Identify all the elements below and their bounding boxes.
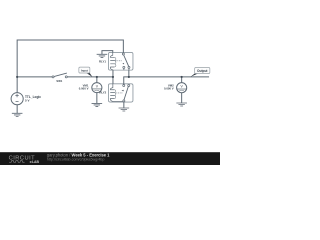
svg-text:http://circuitlab.com/c/9pka5w: http://circuitlab.com/c/9pka5wg/4bp [47,157,105,161]
svg-text:SW1: SW1 [56,79,62,83]
svg-text:0.000 V: 0.000 V [164,87,174,91]
svg-text:RLY1: RLY1 [99,59,106,63]
svg-text:5 V: 5 V [25,99,30,103]
svg-text:Output: Output [197,69,208,73]
svg-text:RLY2: RLY2 [99,91,106,95]
svg-text:0.000 V: 0.000 V [79,86,89,90]
svg-text:Input: Input [81,68,88,72]
svg-text:◄LAB: ◄LAB [29,160,40,164]
